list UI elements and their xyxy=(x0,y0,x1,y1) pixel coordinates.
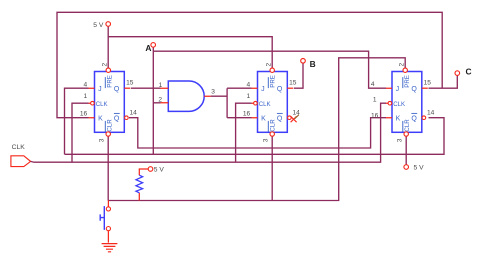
svg-text:14: 14 xyxy=(427,110,435,117)
svg-text:CLK: CLK xyxy=(96,101,108,108)
svg-text:15: 15 xyxy=(424,80,432,87)
svg-text:Q: Q xyxy=(114,86,120,93)
svg-text:Q: Q xyxy=(411,86,417,93)
svg-text:1: 1 xyxy=(247,93,251,100)
svg-text:J: J xyxy=(261,86,265,93)
svg-text:1: 1 xyxy=(159,82,163,89)
svg-text:3: 3 xyxy=(211,89,215,96)
svg-text:CLK: CLK xyxy=(259,101,271,108)
svg-text:PRE: PRE xyxy=(107,75,114,88)
svg-text:Q: Q xyxy=(277,115,283,122)
svg-text:K: K xyxy=(396,115,401,122)
svg-text:CLR: CLR xyxy=(404,119,411,132)
svg-text:Q: Q xyxy=(114,115,120,122)
svg-text:PRE: PRE xyxy=(404,75,411,88)
svg-text:J: J xyxy=(98,86,102,93)
svg-text:2: 2 xyxy=(399,63,406,67)
svg-text:CLK: CLK xyxy=(393,101,405,108)
svg-text:2: 2 xyxy=(158,96,162,103)
svg-text:5 V: 5 V xyxy=(414,164,425,171)
svg-text:14: 14 xyxy=(293,110,301,117)
svg-text:Q: Q xyxy=(277,86,283,93)
svg-text:2: 2 xyxy=(102,63,109,67)
svg-text:CLR: CLR xyxy=(270,119,277,132)
svg-text:16: 16 xyxy=(371,112,379,119)
svg-text:PRE: PRE xyxy=(270,75,277,88)
svg-text:3: 3 xyxy=(98,138,105,142)
svg-text:14: 14 xyxy=(130,110,138,117)
svg-text:A: A xyxy=(145,43,151,53)
svg-text:B: B xyxy=(310,59,316,69)
svg-text:CLR: CLR xyxy=(107,119,114,132)
svg-text:J: J xyxy=(396,86,400,93)
svg-text:2: 2 xyxy=(266,63,273,67)
svg-text:16: 16 xyxy=(80,111,88,118)
svg-text:4: 4 xyxy=(247,82,251,89)
svg-text:1: 1 xyxy=(373,96,377,103)
svg-text:Q: Q xyxy=(411,115,417,122)
svg-text:16: 16 xyxy=(243,111,251,118)
svg-text:5 V: 5 V xyxy=(93,22,104,29)
svg-text:3: 3 xyxy=(396,138,403,142)
svg-text:C: C xyxy=(466,67,472,77)
svg-text:K: K xyxy=(261,115,266,122)
svg-text:3: 3 xyxy=(262,138,269,142)
svg-text:4: 4 xyxy=(84,82,88,89)
svg-text:CLK: CLK xyxy=(12,144,26,151)
svg-text:15: 15 xyxy=(126,80,134,87)
svg-text:1: 1 xyxy=(84,93,88,100)
svg-text:4: 4 xyxy=(371,81,375,88)
svg-text:15: 15 xyxy=(289,80,297,87)
svg-text:K: K xyxy=(98,115,103,122)
svg-text:5 V: 5 V xyxy=(154,166,165,173)
